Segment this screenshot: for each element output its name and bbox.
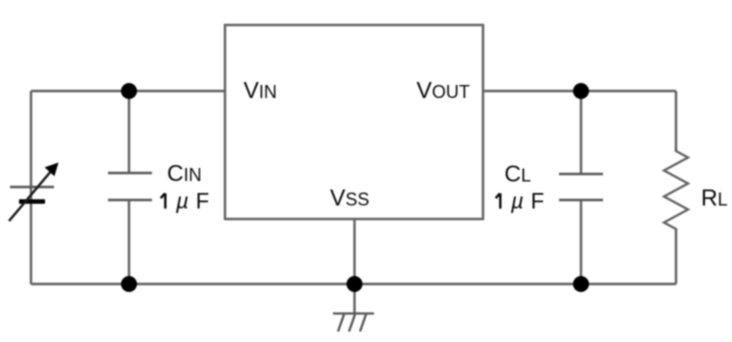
wire top left: [31, 90, 225, 92]
wire VSS branch: [353, 219, 355, 313]
wire CL branch: [580, 91, 582, 174]
svg-text:CIN: CIN: [167, 160, 202, 186]
wire CL branch lower: [580, 200, 582, 284]
junction dot top-left: [121, 83, 137, 99]
junction dot top-right: [573, 83, 589, 99]
value 1uF (CL): [496, 189, 545, 214]
wire bottom: [31, 283, 676, 285]
variable battery source: [9, 163, 59, 222]
wire CIN branch: [128, 91, 130, 173]
ground: [333, 314, 374, 332]
svg-text:F: F: [531, 189, 544, 214]
svg-text:VIN: VIN: [244, 77, 277, 103]
capacitor CL: [559, 174, 603, 200]
junction dot bottom-right: [573, 276, 589, 292]
resistor RL: [664, 148, 688, 232]
wire right vertical lower: [675, 229, 677, 284]
svg-text:F: F: [196, 189, 209, 214]
capacitor CIN: [108, 173, 152, 200]
svg-text:µ: µ: [510, 189, 524, 214]
wire left vertical: [30, 91, 32, 284]
svg-text:VSS: VSS: [330, 185, 369, 211]
junction dot bottom-left: [121, 276, 137, 292]
svg-text:VOUT: VOUT: [417, 77, 470, 103]
IC box: [225, 25, 483, 219]
svg-text:RL: RL: [701, 185, 728, 211]
wire right vertical upper: [675, 91, 677, 151]
wire CIN branch lower: [128, 200, 130, 284]
value 1uF (CIN): [161, 189, 210, 214]
wire top right: [483, 90, 676, 92]
svg-text:CL: CL: [504, 160, 531, 186]
svg-text:µ: µ: [175, 189, 189, 214]
junction dot ground: [347, 276, 363, 292]
